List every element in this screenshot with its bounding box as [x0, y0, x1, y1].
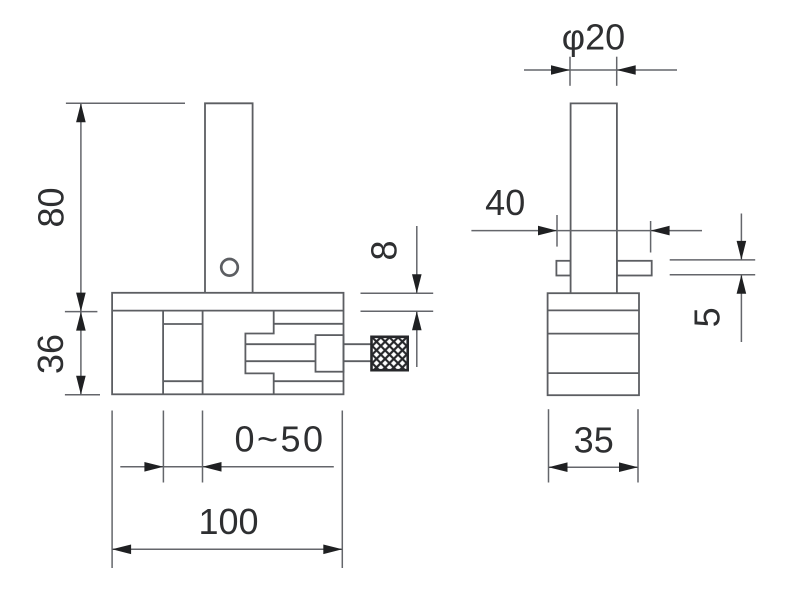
front view guide bar line top (left segment) — [163, 323, 203, 325]
dim 8 lower leader — [361, 310, 434, 312]
front view boss line bottom (right segment) — [274, 380, 344, 382]
side view base line 1 — [548, 309, 639, 311]
svg-text:φ20: φ20 — [562, 16, 625, 57]
front view movable jaw C outline — [245, 311, 273, 395]
arrow 36 up — [76, 312, 86, 331]
arrow 40 left — [651, 226, 670, 236]
dim 5 line — [740, 214, 742, 343]
arrow 8 down — [412, 274, 422, 293]
front view boss line top (right segment) — [274, 323, 344, 325]
arrow 8 up — [412, 311, 422, 330]
front view guide bar line bottom (left segment) — [163, 380, 203, 382]
screw collar — [316, 335, 344, 372]
arrow 35 right — [619, 462, 638, 472]
dim 36 bottom extension line — [65, 394, 100, 396]
arrow 40 right — [538, 226, 557, 236]
front view top plate line — [112, 310, 343, 312]
dim phi20 line — [524, 69, 677, 71]
dim 80 top extension line — [66, 102, 185, 104]
arrow 5 up — [737, 275, 747, 294]
dim 40 line — [471, 230, 702, 232]
dim 35 line — [549, 466, 639, 468]
dim 80 line — [80, 103, 82, 311]
front view column — [205, 103, 253, 292]
dim 0~50 witness right — [202, 411, 204, 483]
side view base line 2 — [548, 333, 639, 335]
dim 35 witness right — [637, 409, 639, 482]
dim 100 line — [112, 548, 342, 550]
arrow 35 left — [549, 462, 568, 472]
dim 0~50 line — [120, 466, 333, 468]
front view hole in column — [221, 259, 238, 276]
arrow phi20 right — [551, 65, 570, 75]
arrow 0~50 right — [144, 462, 163, 472]
dim 8 line — [416, 226, 418, 367]
svg-text:35: 35 — [574, 419, 614, 460]
arrow 80 up — [76, 103, 86, 122]
dim 0~50 witness left — [162, 411, 164, 483]
side view flange left tab — [556, 261, 570, 276]
svg-text:8: 8 — [364, 240, 405, 260]
arrow 0~50 left — [203, 462, 222, 472]
arrow 5 down — [737, 241, 747, 260]
arrow 80 down — [76, 293, 86, 312]
dim 40 witness left — [556, 215, 558, 247]
svg-text:5: 5 — [687, 307, 728, 327]
svg-text:40: 40 — [485, 182, 525, 223]
front view guide section vertical left — [162, 311, 164, 395]
side view column — [571, 103, 617, 293]
svg-text:36: 36 — [30, 334, 71, 374]
arrow 100 right — [323, 545, 342, 555]
side view base block — [548, 293, 639, 395]
dim phi20 witness left — [569, 57, 571, 86]
dim 36 line — [80, 312, 82, 395]
screw shaft upper line inside notch — [245, 343, 315, 345]
front view guide section vertical right (jaw left edge) — [202, 311, 204, 395]
dim phi20 witness right — [616, 57, 618, 86]
side view flange right tab — [617, 261, 652, 276]
arrow phi20 left — [617, 65, 636, 75]
arrow 100 left — [112, 545, 131, 555]
dim 100 witness left — [111, 411, 113, 569]
knurled knob — [372, 337, 408, 370]
dim 40 witness right — [650, 221, 652, 253]
dim 35 witness left — [548, 409, 550, 482]
svg-text:80: 80 — [31, 187, 72, 227]
dim 80/36 shared tick — [65, 311, 98, 313]
front view base block — [112, 293, 343, 395]
screw shaft lower line outside base — [344, 360, 372, 362]
arrow 36 down — [76, 376, 86, 395]
screw shaft lower line inside notch — [245, 360, 315, 362]
svg-text:100: 100 — [198, 501, 258, 542]
dim 5 upper leader — [670, 259, 756, 261]
side view base line 3 — [548, 372, 639, 374]
dim 5 lower leader — [670, 274, 756, 276]
screw shaft upper line outside base — [344, 343, 372, 345]
dim 8 upper leader — [361, 292, 434, 294]
dim 100 witness right — [341, 411, 343, 569]
svg-text:0~50: 0~50 — [234, 419, 325, 460]
